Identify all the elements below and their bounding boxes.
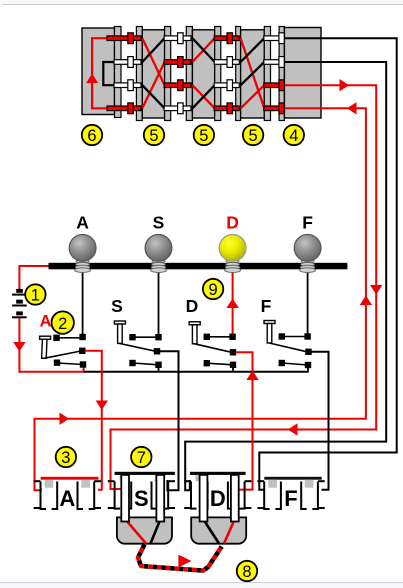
svg-text:5: 5	[149, 127, 158, 145]
label 4 entry wheel	[284, 125, 304, 145]
arrow up inside reflector	[86, 74, 98, 84]
reflector U1 body	[82, 28, 115, 115]
black wire in S body	[151, 520, 161, 544]
arrow up on D key wire	[246, 371, 258, 381]
lamp wire D (red, current to lamp)	[232, 269, 234, 336]
red wire in S body	[126, 520, 147, 544]
wire: D key to plug D right pin (red)	[236, 352, 253, 489]
lower rail	[133, 363, 159, 365]
contacts reflector/R1	[107, 33, 141, 114]
stecker cable S to D (8)	[138, 545, 222, 571]
key cap S	[114, 321, 125, 324]
arrow up on net A right riser	[360, 296, 372, 306]
stub to battery bus	[307, 366, 309, 372]
wire: S key to plug S socket plate	[160, 351, 179, 490]
shorting bar A (red)	[41, 477, 99, 480]
plug S (steckered)	[108, 447, 175, 544]
svg-text:D: D	[226, 213, 239, 233]
wire battery to lamp bar	[19, 265, 48, 267]
lever	[44, 351, 81, 358]
svg-text:5: 5	[249, 127, 258, 145]
svg-text:A: A	[40, 313, 52, 331]
wire: entry wheel D contact to plug D (black, net D)	[185, 62, 386, 490]
svg-text:S: S	[134, 486, 149, 511]
rotor R2 body	[192, 30, 214, 118]
socket holes A	[45, 480, 54, 488]
rotor R1 left plate	[136, 27, 142, 121]
reflector black loop	[103, 62, 121, 85]
lever	[269, 343, 307, 352]
rotor R3 right plate	[264, 27, 270, 121]
entry wheel U4 body	[284, 28, 321, 119]
key cap D	[189, 322, 200, 325]
upper rail	[133, 336, 159, 338]
black wire in D body	[204, 520, 220, 544]
battery B1 wires	[18, 265, 20, 290]
lever	[119, 343, 156, 351]
plug A (self-shorted, carrying current)	[34, 447, 101, 511]
arrow up on D lamp wire	[226, 299, 238, 309]
stecker pins D	[200, 475, 208, 522]
contacts R2/R3	[214, 33, 239, 114]
label 5 rotor1	[144, 125, 164, 145]
switch F	[261, 296, 312, 372]
svg-text:6: 6	[87, 127, 96, 145]
svg-text:S: S	[153, 213, 165, 233]
socket brackets S	[108, 481, 175, 508]
contacts R3/entry	[264, 33, 285, 114]
reflector red return loop	[92, 38, 121, 108]
socket plate D	[190, 472, 246, 475]
socket holes F	[268, 480, 277, 488]
lower rail (battery contact)	[57, 363, 83, 365]
svg-text:F: F	[302, 213, 313, 233]
svg-text:8: 8	[242, 563, 251, 581]
lever	[195, 344, 232, 353]
lamp S	[145, 213, 172, 273]
entry wheel plate	[279, 27, 284, 121]
rotor R3 left plate	[236, 27, 241, 121]
svg-text:A: A	[59, 486, 75, 511]
lamp common bar	[49, 263, 348, 270]
battery cells	[12, 289, 27, 318]
svg-text:7: 7	[137, 449, 146, 467]
arrow right on net S top	[340, 79, 350, 91]
wire: entry wheel S contact return to plug S (red, net S)	[111, 85, 377, 489]
lower rail	[207, 363, 233, 365]
wire: plug A to entry wheel (red bus, net A)	[35, 108, 366, 490]
rotor R3 internal wires	[241, 38, 265, 108]
rotor R3 body	[241, 30, 265, 118]
reflector contact plate	[115, 27, 122, 118]
svg-text:4: 4	[289, 127, 298, 145]
label 8 cable	[237, 561, 257, 581]
label 1 battery	[25, 284, 45, 304]
svg-text:S: S	[111, 296, 123, 316]
rotor R2 internal wires	[192, 38, 214, 62]
lamp wire A	[82, 269, 84, 336]
socket brackets A	[34, 481, 101, 509]
bottom page divider	[0, 583, 403, 588]
arrow left on net A top	[347, 102, 357, 114]
battery bus black part	[84, 371, 309, 373]
svg-text:A: A	[76, 213, 89, 233]
svg-text:D: D	[186, 296, 199, 316]
label 5 rotor3	[243, 125, 263, 145]
svg-text:9: 9	[209, 281, 218, 299]
key cap A	[40, 336, 51, 339]
upper rail (lamp contact)	[57, 337, 83, 339]
wire: entry wheel F contact to plug F (black, net F)	[259, 38, 396, 490]
arrow down on battery wire	[13, 342, 25, 352]
label 5 rotor2	[194, 125, 214, 145]
arrow right on cable	[178, 555, 191, 568]
label 2 pressed key	[52, 311, 74, 333]
top page divider	[0, 0, 403, 4]
rotor R1 right plate	[165, 27, 171, 121]
lower rail	[282, 363, 308, 365]
socket plate S	[115, 472, 175, 475]
svg-text:D: D	[210, 486, 226, 511]
lamp wire S	[158, 269, 160, 336]
svg-text:3: 3	[61, 449, 70, 467]
lamp A	[69, 213, 96, 273]
arrow left on net S bottom	[288, 423, 298, 435]
shorting bar F (black)	[264, 477, 321, 480]
svg-text:2: 2	[58, 315, 67, 333]
label 3 plug A	[56, 447, 76, 467]
svg-text:5: 5	[199, 127, 208, 145]
red wire in D body	[224, 520, 235, 544]
battery bus red part	[19, 366, 83, 372]
plug D (steckered)	[184, 472, 251, 544]
socket brackets D	[184, 481, 251, 508]
arrow down on net S riser	[370, 285, 382, 295]
svg-text:F: F	[261, 296, 272, 316]
stecker pins S	[121, 475, 129, 522]
rotor R1 body	[142, 30, 164, 118]
switch S	[111, 296, 162, 372]
wire: F key to plug F right side	[311, 352, 329, 490]
stub to battery bus	[158, 366, 160, 372]
lamp F	[294, 213, 321, 273]
label 7 plug S	[131, 447, 151, 467]
socket brackets F	[257, 481, 324, 509]
key cap F	[264, 321, 275, 324]
plug F (self-shorted)	[257, 477, 324, 511]
stub to battery bus	[232, 366, 234, 372]
plug body S	[117, 517, 172, 543]
label 9 lamp circuit	[203, 279, 223, 299]
svg-text:F: F	[284, 486, 297, 511]
switch D	[186, 279, 237, 372]
entry wheel row wires	[284, 37, 321, 39]
arrow right on net A bottom	[60, 413, 70, 425]
plug body D	[191, 517, 246, 543]
lamp wire F	[307, 269, 309, 336]
upper rail	[282, 336, 308, 338]
rotor R2 left plate	[186, 27, 192, 121]
svg-text:1: 1	[31, 286, 40, 304]
rotor R1 internal wires	[142, 38, 164, 85]
switch A (pressed)	[40, 311, 87, 367]
wire: A key to plug A (red, down)	[85, 351, 102, 490]
arrow down on A key wire	[96, 401, 108, 411]
contacts R1/R2	[164, 33, 191, 114]
lamp D (lit)	[219, 213, 246, 273]
rotor R2 right plate	[215, 27, 221, 121]
upper rail	[207, 336, 233, 338]
label 6 reflector	[82, 125, 102, 145]
